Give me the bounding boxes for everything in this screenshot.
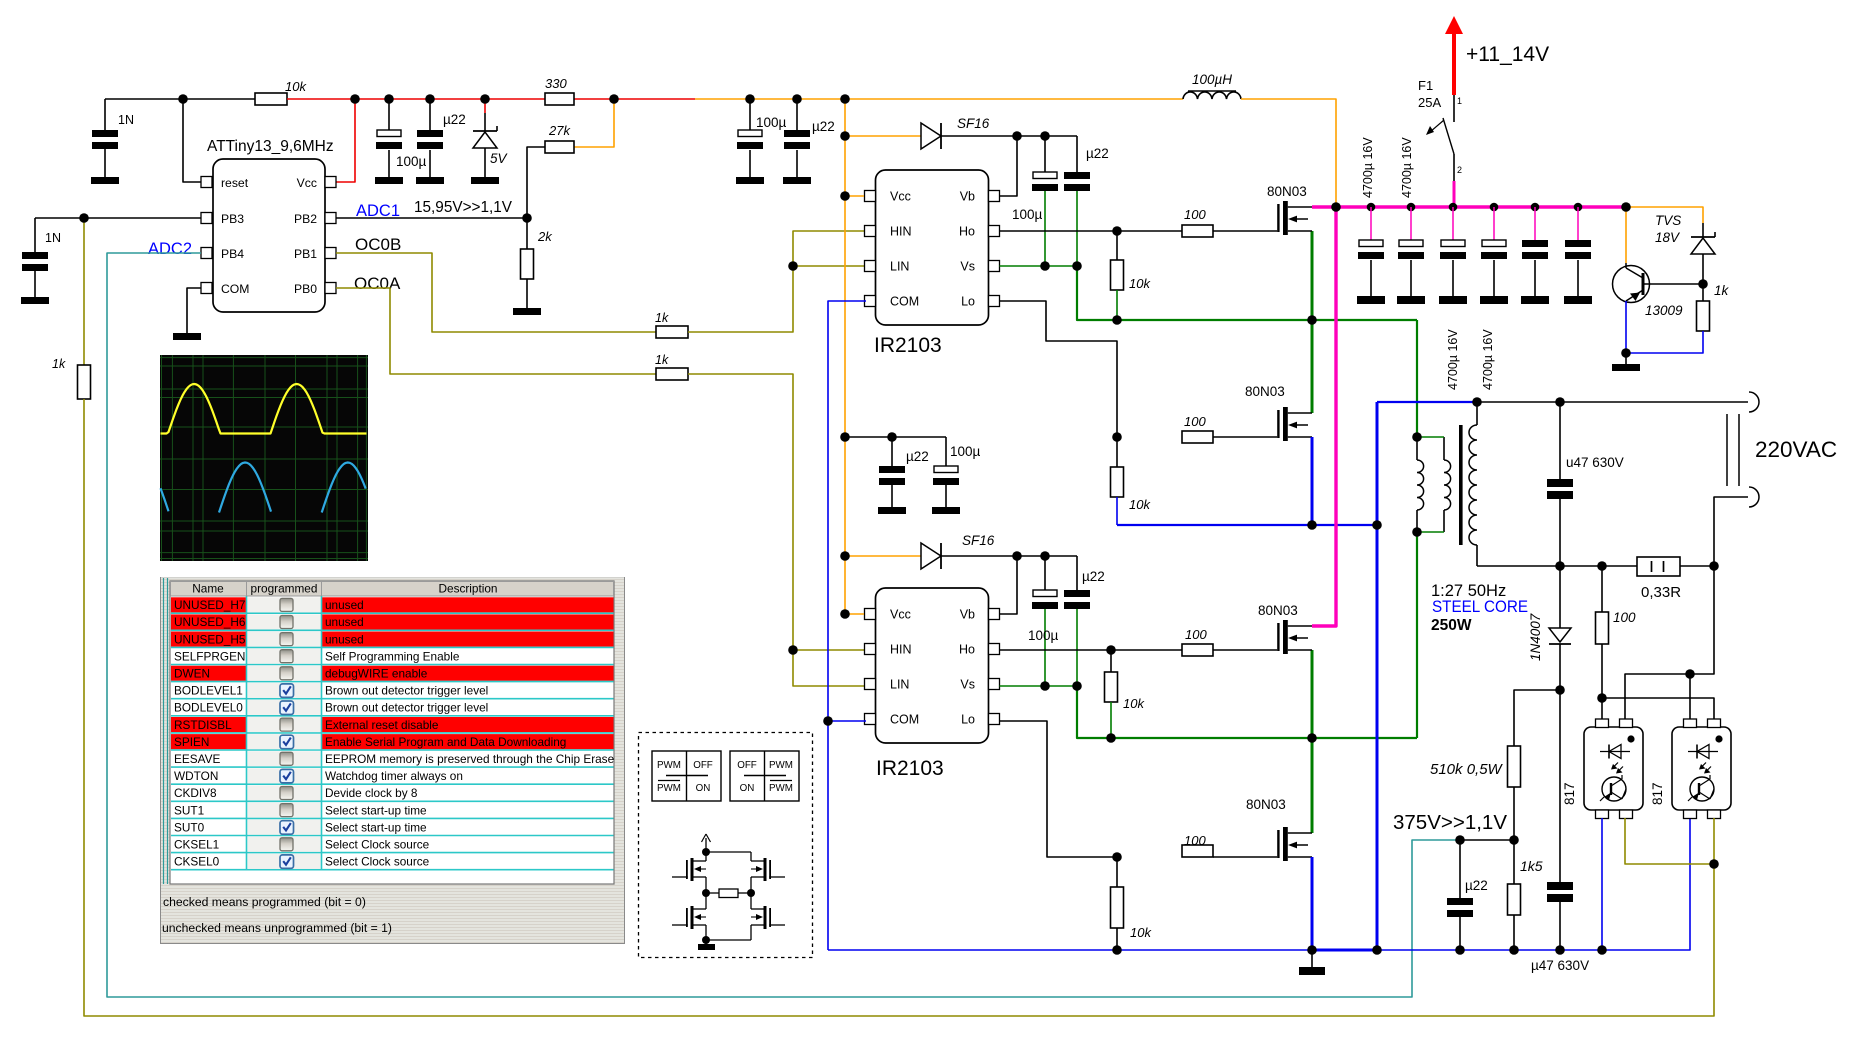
svg-text:unused: unused	[325, 598, 364, 612]
node bus opto1	[1597, 945, 1607, 955]
wire primary bottom link (green)	[1417, 531, 1444, 533]
capacitor C 4700u 16V #1	[1357, 207, 1385, 304]
wire top supply rail left (black)	[105, 98, 255, 100]
svg-text:80N03: 80N03	[1246, 797, 1286, 812]
svg-text:µ22: µ22	[1465, 878, 1488, 893]
wire half-bridge A output (green)	[1077, 266, 1417, 320]
svg-text:DWEN: DWEN	[174, 667, 210, 681]
node primary top	[1412, 432, 1422, 442]
node green source Q1	[1307, 315, 1317, 325]
transformer T1 primary coil A	[1417, 437, 1424, 532]
svg-text:UNUSED_H7: UNUSED_H7	[174, 598, 245, 612]
wire zener stub red	[484, 99, 486, 113]
svg-text:25A: 25A	[1418, 95, 1441, 110]
node 100 sense branch	[1597, 561, 1607, 571]
svg-text:SPIEN: SPIEN	[174, 735, 209, 749]
wire Lo upper to Q2 gate	[1000, 301, 1118, 437]
node Vs 100u	[1040, 261, 1050, 271]
wire SF16 upper anode (orange)	[845, 135, 921, 137]
mini H-bridge diagram	[672, 834, 785, 950]
svg-text:UNUSED_H5: UNUSED_H5	[174, 632, 246, 646]
svg-text:HIN: HIN	[890, 643, 912, 657]
svg-text:HIN: HIN	[890, 225, 912, 239]
svg-text:PB3: PB3	[221, 212, 244, 226]
node 5V zener branch	[480, 94, 490, 104]
capacitor C 4700u 16V #4	[1480, 207, 1508, 304]
capacitor 100u bootstrap lower	[1032, 556, 1058, 686]
node base/1k	[1698, 279, 1708, 289]
wire SF16 lower anode (orange)	[845, 555, 921, 557]
svg-text:OFF: OFF	[737, 760, 757, 771]
PWM truth table 2	[730, 751, 799, 801]
capacitor C 4700u 16V #5	[1521, 207, 1549, 304]
diode TVS 18V	[1691, 223, 1715, 284]
ground (u22 rail)	[416, 177, 444, 184]
wire COM upper (blue)	[828, 301, 866, 950]
svg-text:Vs: Vs	[960, 678, 975, 692]
svg-text:100µ: 100µ	[1028, 628, 1059, 643]
node Vcc lower pin	[840, 609, 850, 619]
wire Lo lower to Q4 gate	[1000, 721, 1118, 857]
svg-text:ADC1: ADC1	[356, 202, 400, 220]
svg-text:ON: ON	[696, 783, 711, 794]
wire Vcc orange vertical	[844, 99, 846, 614]
wire Q1 source to Q2 drain (green thick)	[1311, 231, 1314, 413]
resistor 27k	[545, 141, 574, 153]
svg-text:4700µ 16V: 4700µ 16V	[1446, 329, 1460, 390]
node Q2 source	[1307, 520, 1317, 530]
wire opto2 collector stub (olive)	[1713, 818, 1715, 864]
svg-text:SF16: SF16	[962, 533, 995, 548]
svg-text:27k: 27k	[548, 123, 571, 138]
svg-text:18V: 18V	[1655, 230, 1681, 245]
ground (5V zener)	[471, 177, 499, 184]
wire 1k out to HIN/LIN upper (olive)	[688, 231, 866, 332]
svg-text:100: 100	[1613, 610, 1636, 625]
svg-text:100µH: 100µH	[1192, 72, 1232, 87]
wire OC0A net (olive) PB0 to 1k	[336, 288, 656, 374]
wire blue to secondary top	[1377, 401, 1477, 403]
svg-text:2: 2	[1457, 165, 1462, 175]
svg-text:IR2103: IR2103	[874, 334, 942, 357]
node net B	[1597, 693, 1607, 703]
svg-text:PWM: PWM	[769, 760, 793, 771]
ground (1N left cap)	[21, 297, 49, 304]
svg-text:1k: 1k	[1714, 283, 1730, 298]
node COM lower junction	[823, 716, 833, 726]
wire COM lower stub (blue)	[828, 720, 866, 722]
resistor 510k 0,5W	[1508, 746, 1521, 840]
svg-text:510k 0,5W: 510k 0,5W	[1430, 761, 1504, 778]
wire half-bridge B output (green)	[1077, 686, 1417, 738]
resistor 330	[545, 93, 574, 105]
svg-text:SELFPRGEN: SELFPRGEN	[174, 649, 245, 663]
svg-text:PB2: PB2	[294, 212, 317, 226]
capacitor u22 (divider)	[1447, 840, 1473, 950]
svg-text:100: 100	[1184, 414, 1206, 429]
wire blue bus thick segment	[1312, 949, 1377, 952]
capacitor C 4700u 16V #6	[1564, 207, 1592, 304]
node bus 10k Q4	[1112, 945, 1122, 955]
svg-text:100µ: 100µ	[1012, 207, 1043, 222]
wire reset to rail	[183, 99, 201, 182]
node bus cap6	[1574, 203, 1583, 212]
svg-text:OFF: OFF	[693, 760, 713, 771]
wire opto1 emitter (blue)	[1601, 818, 1603, 950]
node bus u22	[1455, 945, 1465, 955]
svg-text:LIN: LIN	[890, 678, 909, 692]
capacitor C 4700u 16V #3	[1439, 207, 1467, 304]
ground (1N top-left cap)	[91, 177, 119, 184]
svg-text:F1: F1	[1418, 78, 1433, 93]
node Vs2 100u	[1040, 681, 1050, 691]
node Vcc upper pin	[840, 191, 850, 201]
svg-text:80N03: 80N03	[1258, 603, 1298, 618]
node u47 top branch	[1555, 397, 1565, 407]
svg-text:817: 817	[1562, 782, 1577, 805]
svg-text:4700µ 16V: 4700µ 16V	[1361, 137, 1375, 198]
wire Ho lower to gate	[1000, 649, 1183, 651]
node green source Q3	[1307, 733, 1317, 743]
inductor 100uH	[1183, 91, 1241, 99]
oscilloscope screenshot	[160, 355, 368, 561]
svg-text:µ22: µ22	[1082, 569, 1105, 584]
svg-text:COM: COM	[890, 295, 919, 309]
svg-text:100µ: 100µ	[950, 444, 981, 459]
node bus u47	[1555, 945, 1565, 955]
node rail caps u22 mid	[792, 94, 802, 104]
node Ho lower / 10k	[1106, 645, 1116, 655]
wire ADC2 net (teal) PB4 long run	[107, 253, 1460, 997]
wire Vb upper	[997, 136, 1017, 196]
transistor Q2 80N03	[1213, 407, 1312, 441]
svg-text:100µ: 100µ	[396, 154, 427, 169]
ground (u22 mid)	[783, 177, 811, 184]
node bus cap3	[1449, 203, 1458, 212]
svg-text:unused: unused	[325, 615, 364, 629]
svg-text:UNUSED_H6: UNUSED_H6	[174, 615, 246, 629]
wire feedback net (olive) PB3 long run	[83, 218, 85, 366]
svg-text:817: 817	[1650, 782, 1665, 805]
svg-text:4700µ 16V: 4700µ 16V	[1481, 329, 1495, 390]
node bus end orange	[1621, 202, 1631, 212]
node Vs u22	[1072, 261, 1082, 271]
PWM logic dashed box	[639, 733, 813, 958]
wire 1k out to HIN/LIN lower (olive)	[688, 374, 866, 686]
wire Q4 source down (blue thick)	[1311, 857, 1314, 950]
svg-text:10k: 10k	[1130, 925, 1152, 940]
svg-text:220VAC: 220VAC	[1755, 437, 1837, 462]
node LIN upper junction	[788, 261, 798, 271]
node after 330	[609, 94, 619, 104]
svg-text:Brown out detector trigger lev: Brown out detector trigger level	[325, 701, 488, 715]
svg-text:375V>>1,1V: 375V>>1,1V	[1393, 811, 1507, 834]
node 100u branch	[384, 94, 394, 104]
svg-text:10k: 10k	[1129, 276, 1151, 291]
svg-text:Select Clock source: Select Clock source	[325, 838, 430, 852]
wire green to transformer primary bottom	[1416, 532, 1418, 738]
capacitor u22 bootstrap lower	[1064, 556, 1090, 686]
node primary bottom	[1412, 527, 1422, 537]
op-amp driver U3 IR2103 (lower)	[865, 588, 1000, 743]
svg-text:100: 100	[1185, 627, 1207, 642]
transformer T1 secondary	[1469, 402, 1477, 566]
wire Q3 source to Q4 drain (green thick)	[1311, 650, 1314, 833]
capacitor 100u (mid)	[737, 99, 763, 177]
svg-text:PB1: PB1	[294, 247, 317, 261]
svg-text:SF16: SF16	[957, 116, 990, 131]
svg-text:EEPROM memory is preserved thr: EEPROM memory is preserved through the C…	[325, 752, 615, 766]
transistor Q3 80N03	[1213, 620, 1312, 654]
svg-text:PWM: PWM	[769, 783, 793, 794]
wire SF16 upper cathode run	[941, 135, 1077, 137]
wire 1k to emitter (blue)	[1626, 331, 1703, 353]
svg-text:1: 1	[1457, 96, 1462, 106]
svg-text:1N: 1N	[118, 113, 134, 127]
node 1N4007 / 510k	[1555, 685, 1565, 695]
svg-text:PB0: PB0	[294, 282, 317, 296]
wire feedback bottom bus (olive)	[84, 399, 1714, 1016]
node u22 lower branch	[887, 432, 897, 442]
transistor Q4 80N03	[1213, 827, 1312, 861]
wire 220VAC bottom to sense	[1714, 497, 1748, 566]
wire magenta vertical to Q3 drain	[1312, 207, 1336, 626]
svg-text:2k: 2k	[537, 229, 553, 244]
node 0,33R right	[1709, 561, 1719, 571]
svg-text:Vcc: Vcc	[890, 608, 911, 622]
pin PB3	[201, 213, 212, 224]
connector gap bars	[1726, 414, 1728, 486]
node bus 1k5	[1509, 945, 1519, 955]
wire emitter down (blue)	[1625, 301, 1627, 353]
svg-text:µ22: µ22	[812, 119, 835, 134]
svg-text:4700µ 16V: 4700µ 16V	[1400, 137, 1414, 198]
svg-text:100: 100	[1184, 207, 1206, 222]
svg-text:PWM: PWM	[657, 760, 681, 771]
wire opto1 collector (olive)	[1625, 818, 1714, 864]
svg-text:100: 100	[1184, 833, 1206, 848]
svg-text:unused: unused	[325, 632, 364, 646]
node Ho upper / 10k	[1112, 226, 1122, 236]
resistor 10k (gate-source Q4)	[1111, 857, 1124, 950]
svg-text:250W: 250W	[1431, 617, 1472, 634]
node u47/1N4007	[1555, 561, 1565, 571]
svg-text:5V: 5V	[490, 151, 509, 166]
wire 27k to rail (orange)	[574, 99, 614, 147]
svg-text:Select start-up time: Select start-up time	[325, 803, 427, 817]
svg-text:BODLEVEL1: BODLEVEL1	[174, 684, 243, 698]
pin PB1	[325, 248, 336, 259]
PWM truth table 1	[652, 751, 721, 801]
svg-text:External reset disable: External reset disable	[325, 718, 439, 732]
node Vb upper branch	[1012, 131, 1022, 141]
resistor 2k	[521, 218, 534, 308]
ground (2k)	[513, 308, 541, 315]
op-amp driver U2 IR2103 (upper)	[865, 170, 1000, 325]
wire Vcc upper stub (orange)	[845, 195, 864, 197]
svg-text:reset: reset	[221, 176, 249, 190]
svg-text:WDTON: WDTON	[174, 769, 218, 783]
svg-text:Select start-up time: Select start-up time	[325, 820, 427, 834]
svg-text:Brown out detector trigger lev: Brown out detector trigger level	[325, 684, 488, 698]
svg-text:LIN: LIN	[890, 260, 909, 274]
optocoupler 817 #1	[1584, 719, 1643, 819]
wire Q2 source down (blue thick)	[1311, 437, 1314, 525]
node magenta bus x1336	[1331, 202, 1341, 212]
resistor 10k (gate-source Q2)	[1111, 437, 1124, 525]
resistor 100 (gate Q1)	[1182, 225, 1213, 237]
resistor 100 (gate Q3)	[1182, 644, 1213, 656]
svg-text:IR2103: IR2103	[876, 757, 944, 780]
svg-text:CKSEL0: CKSEL0	[174, 855, 220, 869]
node bootstrap 100u upper	[1040, 131, 1050, 141]
svg-text:10k: 10k	[1129, 497, 1151, 512]
svg-text:unchecked means unprogrammed (: unchecked means unprogrammed (bit = 1)	[162, 921, 392, 935]
svg-text:SUT1: SUT1	[174, 803, 204, 817]
svg-text:0,33R: 0,33R	[1641, 584, 1681, 601]
svg-text:Lo: Lo	[961, 295, 975, 309]
wire collector 13009 (orange)	[1625, 207, 1627, 263]
node secondary top	[1472, 397, 1482, 407]
svg-text:STEEL CORE: STEEL CORE	[1432, 598, 1528, 616]
svg-text:ON: ON	[740, 783, 755, 794]
svg-text:programmed: programmed	[251, 582, 318, 596]
svg-text:Devide clock by 8: Devide clock by 8	[325, 786, 418, 800]
ground (u22 driver2)	[878, 507, 906, 514]
fuse F1 25A breaker	[1426, 95, 1454, 181]
wire SF16 lower cathode run	[941, 555, 1077, 557]
svg-text:330: 330	[545, 76, 567, 91]
wire net B to optos	[1602, 698, 1714, 721]
svg-text:ATTiny13_9,6MHz: ATTiny13_9,6MHz	[207, 138, 334, 155]
svg-text:CKSEL1: CKSEL1	[174, 838, 219, 852]
node bus Q4 source	[1307, 945, 1317, 955]
node HIN lower junction	[788, 645, 798, 655]
transistor Q1 80N03	[1213, 201, 1312, 235]
capacitor 100u (driver2 supply)	[933, 437, 959, 507]
transistor 13009	[1613, 263, 1650, 303]
diode SF16 (lower)	[921, 543, 941, 569]
wire drain Q1 to magenta bus	[1312, 205, 1626, 208]
node Vb lower branch	[1012, 551, 1022, 561]
svg-text:RSTDISBL: RSTDISBL	[174, 718, 232, 732]
svg-text:checked means programmed (bit: checked means programmed (bit = 0)	[163, 895, 366, 909]
wire Vcc lower stub (orange)	[845, 613, 864, 615]
node gate Q2	[1112, 432, 1122, 442]
svg-text:PWM: PWM	[657, 783, 681, 794]
node blue 525/vertical	[1372, 520, 1382, 530]
capacitor 100u bootstrap upper	[1032, 136, 1058, 266]
svg-text:debugWIRE enable: debugWIRE enable	[325, 667, 428, 681]
wire ground bus (blue)	[828, 818, 1690, 950]
node u22 branch	[425, 94, 435, 104]
svg-text:10k: 10k	[285, 79, 307, 94]
svg-text:µ22: µ22	[443, 112, 466, 127]
svg-text:SUT0: SUT0	[174, 820, 205, 834]
wire 0,33R right	[1680, 565, 1714, 567]
wire 27k to ADC1 node	[527, 147, 545, 218]
svg-text:1k: 1k	[52, 357, 66, 371]
wire OC0B net (olive) PB1 to 1k	[336, 253, 656, 332]
node olive opto junction	[1709, 859, 1719, 869]
svg-text:13009: 13009	[1645, 303, 1683, 318]
wire net A stub opto2	[1689, 674, 1691, 721]
resistor 100 (gate Q2)	[1182, 431, 1213, 443]
svg-text:Ho: Ho	[959, 225, 975, 239]
resistor R 10k (rail)	[255, 93, 287, 105]
node net A opto2	[1685, 669, 1695, 679]
node cap feed lower	[840, 432, 850, 442]
svg-text:µ47 630V: µ47 630V	[1531, 958, 1589, 973]
wire PB2 / ADC1	[336, 217, 527, 219]
node bus cap4	[1490, 203, 1499, 212]
svg-text:15,95V>>1,1V: 15,95V>>1,1V	[414, 199, 513, 216]
node bus blue vertical	[1372, 945, 1382, 955]
resistor 0,33R	[1637, 557, 1680, 576]
capacitor 100u (rail)	[376, 99, 402, 177]
resistor 10k (gate-source Q3)	[1105, 650, 1118, 738]
ground (13009)	[1612, 353, 1640, 371]
svg-text:80N03: 80N03	[1245, 384, 1285, 399]
svg-text:EESAVE: EESAVE	[174, 752, 220, 766]
pin PB4	[201, 248, 212, 259]
transformer T1 core	[1459, 425, 1463, 545]
svg-text:80N03: 80N03	[1267, 184, 1307, 199]
svg-text:1N4007: 1N4007	[1528, 613, 1543, 661]
node rail caps 100u mid	[745, 94, 755, 104]
svg-text:10k: 10k	[1123, 696, 1145, 711]
svg-text:Vcc: Vcc	[890, 190, 911, 204]
capacitor u22 (driver2 supply)	[879, 437, 905, 507]
wire LIN upper stub (olive)	[793, 265, 866, 267]
resistor R 1k (feedback)	[78, 365, 91, 399]
diode SF16 (upper)	[921, 123, 941, 149]
svg-text:CKDIV8: CKDIV8	[174, 786, 217, 800]
wire rail orange segment	[695, 98, 1183, 100]
node bus cap1	[1367, 203, 1376, 212]
resistor R 1k (OC0B)	[656, 326, 688, 338]
ground (100u rail)	[375, 177, 403, 184]
node bus cap2	[1407, 203, 1416, 212]
svg-text:Vcc: Vcc	[297, 176, 317, 190]
wire Vb lower	[1000, 556, 1018, 614]
wire Vs lower (green)	[1000, 685, 1078, 687]
svg-text:Description: Description	[438, 582, 497, 596]
resistor 1k5	[1508, 840, 1521, 950]
capacitor 1N (left)	[22, 218, 48, 297]
IC U1 ATtiny13 box	[213, 159, 325, 312]
svg-text:OC0B: OC0B	[355, 235, 401, 254]
svg-text:Ho: Ho	[959, 643, 975, 657]
capacitor u47 630V (bottom)	[1547, 690, 1573, 950]
svg-text:1k: 1k	[655, 353, 669, 367]
wire Ho upper to gate	[1000, 230, 1183, 232]
wire net A 220VAC sense to optos	[1625, 566, 1714, 721]
resistor 100 (gate Q4)	[1182, 845, 1213, 857]
svg-text:BODLEVEL0: BODLEVEL0	[174, 701, 243, 715]
capacitor C 4700u 16V #2	[1397, 207, 1425, 304]
wire base 13009	[1645, 283, 1704, 285]
node gate Q4	[1112, 852, 1122, 862]
wire green to transformer primary top	[1416, 320, 1418, 437]
diode 1N4007	[1549, 566, 1571, 690]
svg-text:ADC2: ADC2	[148, 240, 192, 258]
svg-text:+11_14V: +11_14V	[1466, 43, 1549, 66]
resistor R 1k (OC0A)	[656, 368, 688, 380]
wire inductor to bus (orange)	[1241, 99, 1336, 207]
diode zener 5V	[473, 113, 497, 177]
resistor 10k (gate-source Q1)	[1111, 231, 1124, 320]
